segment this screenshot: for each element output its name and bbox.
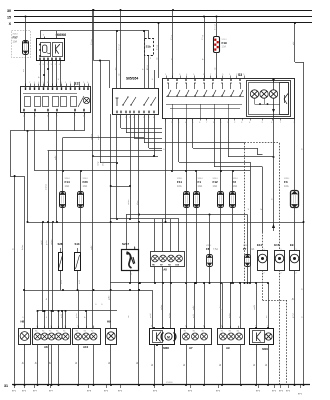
svg-text:g/bl: g/bl xyxy=(293,41,295,45)
lamp block A10 xyxy=(73,326,101,349)
svg-text:2: 2 xyxy=(171,122,172,124)
wire relay pin a to S17 xyxy=(38,63,41,87)
wire A8 grounds xyxy=(34,344,58,385)
wire S3 drop x228 bend xyxy=(228,118,275,158)
svg-text:ws/bl: ws/bl xyxy=(150,313,152,318)
svg-text:ws: ws xyxy=(115,68,117,70)
svg-text:10A: 10A xyxy=(222,45,227,49)
svg-text:F19: F19 xyxy=(222,41,228,45)
svg-text:10A: 10A xyxy=(198,184,203,188)
svg-text:gr/ws: gr/ws xyxy=(46,240,48,245)
fuse F2 xyxy=(229,171,238,283)
svg-text:1: 1 xyxy=(65,82,66,84)
wire E14 feed xyxy=(260,167,262,251)
svg-text:br: br xyxy=(21,362,24,364)
svg-text:bl/ws: bl/ws xyxy=(137,200,139,205)
wire bus30 to S65 via bend xyxy=(93,9,110,88)
wire S3 drop x179 bend xyxy=(179,118,251,163)
wire bus15 to fuse F19 xyxy=(216,16,218,38)
wire S3 drop x193 xyxy=(193,118,263,155)
svg-text:10A: 10A xyxy=(233,184,238,188)
wire S65 bend rows xyxy=(121,114,208,149)
svg-text:1: 1 xyxy=(170,326,171,328)
svg-text:2: 2 xyxy=(55,64,56,66)
svg-text:15: 15 xyxy=(7,15,11,19)
svg-text:br: br xyxy=(75,362,78,364)
svg-text:1: 1 xyxy=(125,117,126,119)
wire relay K6 top to node xyxy=(40,31,149,39)
svg-text:5: 5 xyxy=(43,82,44,84)
wire fuse F19 to S3 xyxy=(214,52,216,78)
svg-text:S1b: S1b xyxy=(146,45,151,49)
svg-text:3: 3 xyxy=(39,64,40,66)
svg-text:F2: F2 xyxy=(233,180,237,184)
svg-text:10A: 10A xyxy=(83,184,88,188)
switch unit M38 xyxy=(150,327,176,385)
wire A10 lamp feeds xyxy=(78,290,80,328)
svg-text:S217: S217 xyxy=(122,242,129,246)
wire left ground drop xyxy=(11,175,15,386)
svg-text:F3: F3 xyxy=(284,180,288,184)
wire long x93 xyxy=(90,9,94,328)
svg-text:8: 8 xyxy=(153,117,154,119)
svg-text:F20: F20 xyxy=(83,180,89,184)
wire S3 drop x207 dashed link xyxy=(207,142,245,144)
svg-text:7: 7 xyxy=(210,74,211,76)
svg-text:gr/sw: gr/sw xyxy=(292,313,294,318)
svg-text:sw/bl: sw/bl xyxy=(41,240,43,245)
wire x100 drop xyxy=(98,61,117,164)
wire fuse feed row xyxy=(35,170,250,172)
svg-text:31: 31 xyxy=(4,384,8,388)
svg-text:6: 6 xyxy=(203,74,204,76)
wire M38 feed left xyxy=(152,290,154,328)
wire M16 feeds xyxy=(254,282,269,328)
wire S65 drop pin1 xyxy=(116,114,118,220)
svg-text:1: 1 xyxy=(143,117,144,119)
svg-text:3: 3 xyxy=(243,74,244,76)
fuse F19 xyxy=(214,37,228,53)
wire stub to S65 pin c xyxy=(152,70,155,88)
svg-text:1: 1 xyxy=(131,274,132,276)
svg-text:4: 4 xyxy=(249,122,250,124)
svg-text:sw/ws: sw/ws xyxy=(51,240,53,245)
svg-text:K2: K2 xyxy=(91,330,93,332)
svg-text:F1: F1 xyxy=(198,180,202,184)
svg-text:1: 1 xyxy=(264,249,265,251)
switch S1b xyxy=(145,39,154,61)
svg-text:K5: K5 xyxy=(56,330,58,332)
svg-text:1: 1 xyxy=(25,82,26,84)
svg-text:10A: 10A xyxy=(213,184,218,188)
svg-text:E1: E1 xyxy=(202,330,204,332)
svg-text:4: 4 xyxy=(186,74,187,76)
svg-text:gr/bl: gr/bl xyxy=(61,314,63,318)
wire S65 long ground drop xyxy=(136,114,140,386)
svg-text:XX380: XX380 xyxy=(166,382,173,384)
wire relay pin c to S17 xyxy=(47,63,49,87)
svg-text:A10: A10 xyxy=(83,345,89,349)
svg-text:2: 2 xyxy=(296,273,297,275)
wire M38 feeds xyxy=(160,283,171,328)
wire node row y131 xyxy=(10,130,84,132)
connector S28 xyxy=(58,242,63,290)
svg-text:7: 7 xyxy=(206,122,207,124)
lamp block A7 xyxy=(181,326,212,350)
svg-text:2: 2 xyxy=(264,273,265,275)
svg-text:30: 30 xyxy=(7,9,11,13)
svg-text:gr/sw: gr/sw xyxy=(169,313,171,318)
svg-text:2: 2 xyxy=(135,248,136,250)
svg-text:F57: F57 xyxy=(13,36,19,40)
wire S65 pin to row156 xyxy=(153,114,155,157)
fuse F7 xyxy=(243,215,255,284)
wire bus15 to S3 pin 5 xyxy=(202,16,205,79)
wire E15 below dashed xyxy=(279,270,281,385)
svg-text:0.5 gr: 0.5 gr xyxy=(202,35,204,40)
wire S1b to S65 xyxy=(147,31,149,88)
svg-text:E9: E9 xyxy=(290,243,294,247)
svg-text:gr/bl: gr/bl xyxy=(193,314,195,318)
svg-text:S13: S13 xyxy=(75,242,80,246)
switch unit S65/S54 xyxy=(113,77,159,119)
wire bus30 to S3 pin 9 xyxy=(171,9,174,78)
svg-text:9: 9 xyxy=(51,64,52,66)
wire relay pin b to S17 xyxy=(43,63,45,87)
relay K6 xyxy=(37,33,67,63)
svg-text:gr/ws: gr/ws xyxy=(160,304,163,310)
svg-text:K2: K2 xyxy=(76,330,78,332)
lamp H9 xyxy=(106,320,117,385)
svg-text:10A: 10A xyxy=(177,184,182,188)
wire relay pin d to S17 xyxy=(52,63,54,87)
svg-text:A8: A8 xyxy=(163,267,167,271)
wire row y137 F14 feed xyxy=(63,138,145,194)
svg-text:4: 4 xyxy=(59,64,60,66)
wire node y186 xyxy=(111,186,130,188)
wire A8 lamp feeds xyxy=(38,310,66,328)
wire S17 pin6 drop xyxy=(48,112,50,131)
fuse F12 xyxy=(213,118,224,328)
svg-text:A8: A8 xyxy=(44,345,48,349)
svg-text:ws: ws xyxy=(266,316,268,318)
svg-text:gr/ws: gr/ws xyxy=(229,313,231,318)
svg-text:1: 1 xyxy=(296,249,297,251)
svg-text:E1: E1 xyxy=(193,330,195,332)
svg-text:gr/bl: gr/bl xyxy=(219,305,222,310)
svg-text:br: br xyxy=(183,364,186,366)
svg-text:2: 2 xyxy=(93,326,94,328)
svg-text:1: 1 xyxy=(281,249,282,251)
wire rail y222 xyxy=(28,221,305,223)
svg-text:K5: K5 xyxy=(35,330,37,332)
svg-text:gr/bl: gr/bl xyxy=(108,295,111,300)
svg-text:5: 5 xyxy=(151,326,152,328)
svg-text:br/bl: br/bl xyxy=(79,280,81,284)
svg-text:10A: 10A xyxy=(284,184,289,188)
connector S13 xyxy=(75,242,81,290)
svg-text:br: br xyxy=(136,362,139,364)
wire dashed E15 feed xyxy=(279,143,281,251)
svg-text:3: 3 xyxy=(34,82,35,84)
svg-text:br: br xyxy=(265,364,268,366)
svg-text:F14: F14 xyxy=(65,180,71,184)
svg-text:2: 2 xyxy=(172,74,173,76)
svg-text:br: br xyxy=(108,362,111,364)
svg-text:K5: K5 xyxy=(63,330,65,332)
svg-text:4: 4 xyxy=(38,82,39,84)
svg-text:1: 1 xyxy=(165,74,166,76)
svg-text:3: 3 xyxy=(179,74,180,76)
svg-text:2: 2 xyxy=(129,117,130,119)
wire row y214 and S217 feed xyxy=(126,214,248,250)
svg-text:7: 7 xyxy=(47,64,48,66)
svg-text:M16: M16 xyxy=(262,347,268,351)
svg-text:0.5 gr: 0.5 gr xyxy=(156,45,158,50)
wire E9 to ground xyxy=(291,270,294,385)
instrument cluster S17 xyxy=(21,82,91,118)
wire relay pin e to S17 xyxy=(56,63,58,87)
wire S17 pin3 drop xyxy=(34,112,36,171)
svg-text:8: 8 xyxy=(56,82,57,84)
wire node row y219 xyxy=(110,218,179,220)
svg-text:2: 2 xyxy=(236,74,237,76)
fuse F57 xyxy=(12,31,31,58)
svg-text:br: br xyxy=(34,362,37,364)
svg-text:gr/bl: gr/bl xyxy=(90,245,93,250)
wire label texture bottom left xyxy=(41,240,81,284)
svg-text:6: 6 xyxy=(47,82,48,84)
svg-text:8: 8 xyxy=(216,74,217,76)
svg-text:2: 2 xyxy=(221,326,222,328)
svg-text:2: 2 xyxy=(70,82,71,84)
svg-text:7: 7 xyxy=(280,122,281,124)
svg-text:br: br xyxy=(219,364,222,366)
svg-text:E2: E2 xyxy=(229,330,231,332)
wire S3 pin drop x172 xyxy=(172,118,174,171)
svg-text:6: 6 xyxy=(199,122,200,124)
svg-text:5: 5 xyxy=(193,74,194,76)
svg-text:H8: H8 xyxy=(21,320,25,324)
svg-text:sw: sw xyxy=(23,69,25,72)
svg-text:9: 9 xyxy=(61,82,62,84)
svg-text:4: 4 xyxy=(203,326,204,328)
svg-text:4: 4 xyxy=(185,122,186,124)
wire label texture bottom row xyxy=(22,313,303,318)
svg-text:4: 4 xyxy=(79,82,80,84)
svg-text:br/ws: br/ws xyxy=(21,244,24,250)
svg-text:br: br xyxy=(151,364,154,366)
svg-text:7,5A: 7,5A xyxy=(213,248,218,251)
lamp E15 xyxy=(274,243,284,275)
fuse F11 xyxy=(177,118,190,328)
svg-text:5: 5 xyxy=(83,82,84,84)
svg-text:ws/sw: ws/sw xyxy=(91,134,93,140)
svg-text:10A: 10A xyxy=(65,184,70,188)
lamp E9 xyxy=(290,243,300,275)
svg-text:10A: 10A xyxy=(250,248,255,251)
svg-text:0.5 sw: 0.5 sw xyxy=(118,44,120,50)
wire A7 feeds xyxy=(192,282,205,328)
lamp block A8 xyxy=(33,326,71,349)
svg-text:0.5 sw: 0.5 sw xyxy=(214,24,216,30)
svg-text:S3: S3 xyxy=(238,73,242,77)
svg-text:2: 2 xyxy=(267,326,268,328)
svg-text:7: 7 xyxy=(255,326,256,328)
wire rail y283 xyxy=(110,282,268,284)
wire S17 pin4 left drop xyxy=(24,112,26,131)
wire x250 drop xyxy=(248,162,251,283)
diagnostic connector S217 xyxy=(122,242,139,283)
fuse F3 xyxy=(284,118,299,251)
switch lamp unit M16 xyxy=(250,327,274,385)
wire A7 grounds xyxy=(183,344,205,385)
svg-text:H9: H9 xyxy=(107,320,111,324)
svg-text:bl/ws: bl/ws xyxy=(103,161,105,166)
svg-text:2: 2 xyxy=(37,326,38,328)
wire busX right drop xyxy=(293,22,304,63)
fuse F20 xyxy=(77,171,88,253)
relay K6 bottom pin marks xyxy=(39,58,61,67)
svg-text:S28: S28 xyxy=(58,242,63,246)
svg-text:6: 6 xyxy=(271,122,272,124)
ground bus 31 xyxy=(4,382,310,388)
wire dashed x244 drop xyxy=(244,143,246,283)
wire right edge drop xyxy=(301,62,303,385)
svg-text:sw/ws: sw/ws xyxy=(128,200,130,205)
fuse F8 xyxy=(206,215,218,284)
wire row y150 xyxy=(48,150,163,152)
power bus 30 xyxy=(7,9,312,13)
wire A8b feeds xyxy=(155,219,179,252)
wire label texture mid left xyxy=(98,161,105,166)
wire fuse F57 to S17 pin 1 xyxy=(23,54,25,86)
wire row y156 xyxy=(93,156,158,158)
svg-text:K5: K5 xyxy=(42,330,44,332)
svg-text:gr/bl: gr/bl xyxy=(192,305,195,310)
svg-text:gr/bl: gr/bl xyxy=(54,155,57,160)
svg-text:A9: A9 xyxy=(226,346,230,350)
fuse F14 xyxy=(59,178,70,253)
svg-text:br: br xyxy=(45,298,48,300)
svg-text:3: 3 xyxy=(241,122,242,124)
svg-text:1: 1 xyxy=(227,122,228,124)
svg-text:3: 3 xyxy=(133,117,134,119)
svg-text:1: 1 xyxy=(77,326,78,328)
wire label texture top middle xyxy=(91,24,217,70)
svg-text:6: 6 xyxy=(87,82,88,84)
svg-text:M: M xyxy=(167,335,170,339)
wire busX to S3 pin 16 xyxy=(156,22,159,78)
lamp module in S3 xyxy=(163,73,295,118)
svg-text:br: br xyxy=(253,364,256,366)
indicator block A8 upper xyxy=(151,252,185,272)
svg-text:8: 8 xyxy=(213,122,214,124)
wire x43 drop xyxy=(42,221,44,312)
svg-text:3: 3 xyxy=(162,326,163,328)
pin numbers above lamp boxes xyxy=(24,326,269,328)
svg-text:S65/S54: S65/S54 xyxy=(126,77,138,81)
wire A10 grounds xyxy=(75,303,104,385)
svg-text:3: 3 xyxy=(74,82,75,84)
svg-text:F12: F12 xyxy=(213,180,219,184)
svg-text:K5: K5 xyxy=(49,330,51,332)
svg-text:2: 2 xyxy=(29,82,30,84)
wire A10 mid feed xyxy=(86,311,88,328)
svg-text:7: 7 xyxy=(52,82,53,84)
wire bus15 to fuse F57 xyxy=(25,16,27,41)
svg-text:br: br xyxy=(48,362,51,364)
wire node to S65 pin b xyxy=(142,30,145,88)
svg-text:0.5 bl: 0.5 bl xyxy=(147,65,149,70)
svg-text:br/bl: br/bl xyxy=(61,280,63,284)
power bus X xyxy=(9,22,312,26)
wire A9 feeds xyxy=(219,282,241,328)
svg-text:F7: F7 xyxy=(243,247,247,251)
svg-text:5: 5 xyxy=(262,122,263,124)
svg-text:2: 2 xyxy=(185,326,186,328)
wire long H9 feed xyxy=(108,114,112,328)
wire S17 pin7 drop xyxy=(74,112,76,131)
svg-text:K2: K2 xyxy=(84,330,86,332)
wire A9 grounds xyxy=(219,344,241,385)
wire bus30 to S65 pin xyxy=(118,9,121,88)
wire dashed drop x284 xyxy=(286,300,288,385)
svg-text:br: br xyxy=(291,298,294,300)
svg-text:1: 1 xyxy=(229,74,230,76)
svg-text:E15: E15 xyxy=(274,243,279,247)
svg-text:sw/gr: sw/gr xyxy=(98,161,100,166)
lamp block A9 xyxy=(218,326,245,350)
svg-text:M38: M38 xyxy=(163,346,169,350)
wire S3 drop x214 bend xyxy=(214,118,263,167)
svg-text:2: 2 xyxy=(281,273,282,275)
wire row y290 xyxy=(23,289,152,291)
S3 bottom pin row xyxy=(165,118,295,124)
svg-text:ws/bl: ws/bl xyxy=(254,305,256,310)
svg-text:9: 9 xyxy=(222,74,223,76)
svg-text:K6/K6: K6/K6 xyxy=(57,33,66,37)
svg-text:0.5 ro: 0.5 ro xyxy=(171,34,173,40)
wire node to S65 pin a xyxy=(115,30,118,88)
svg-text:br: br xyxy=(11,248,14,250)
wire x27 drop xyxy=(27,131,29,223)
wire row y311 xyxy=(37,310,118,312)
svg-text:F11: F11 xyxy=(177,180,182,184)
wire S17 pin2 drop gr/bl xyxy=(54,112,57,222)
wire S65 drop to row219 xyxy=(128,114,131,220)
lamp H8 xyxy=(19,320,31,385)
wire relay pin f to S17 xyxy=(58,63,61,87)
wire x273 drop arrow xyxy=(271,118,275,231)
svg-text:10A: 10A xyxy=(13,40,18,44)
wire S17 pin1 drop xyxy=(84,112,86,131)
svg-text:1: 1 xyxy=(240,326,241,328)
wire S3 drop x165 to rail xyxy=(163,118,165,222)
svg-text:A7: A7 xyxy=(189,346,193,350)
wire F14 to S28 xyxy=(62,251,64,253)
lamp E14 xyxy=(257,243,268,275)
svg-text:E2: E2 xyxy=(237,330,239,332)
wire E14 below dashed xyxy=(263,270,287,301)
svg-text:5: 5 xyxy=(43,64,44,66)
svg-text:1: 1 xyxy=(110,326,111,328)
wire dashed row y143 xyxy=(245,142,280,144)
svg-text:2: 2 xyxy=(234,122,235,124)
svg-text:sw/ws: sw/ws xyxy=(45,183,47,190)
power bus 15 xyxy=(7,15,312,19)
svg-text:gr/ws: gr/ws xyxy=(76,313,78,318)
